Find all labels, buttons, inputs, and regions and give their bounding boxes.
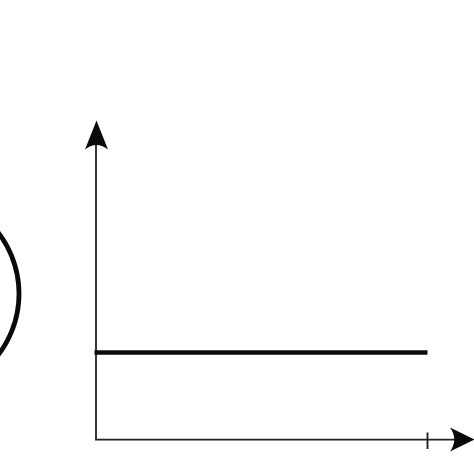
x-axis arrowhead [450, 428, 474, 452]
y-axis arrowhead [85, 121, 108, 150]
x-axis [95, 439, 455, 441]
y-axis [95, 132, 97, 440]
circle arc (left edge, cropped) [0, 193, 19, 394]
constant function line (thick) [95, 350, 428, 355]
tick mark on x-axis [427, 433, 429, 450]
